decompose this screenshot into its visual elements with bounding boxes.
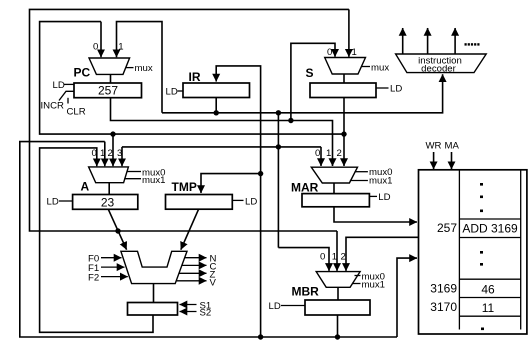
multiplexer S mux — [325, 58, 366, 75]
wire: IR-out bus line y=112.8 to decoder riser — [162, 74, 443, 113]
svg-text:mux1: mux1 — [369, 176, 392, 187]
svg-text:257: 257 — [437, 221, 457, 235]
svg-text:LD: LD — [378, 192, 390, 203]
label tick mux (PC) — [126, 67, 134, 69]
svg-text:2: 2 — [108, 148, 113, 159]
memory row line between 46 and 11 — [459, 297, 520, 299]
wire: ALU to shifter — [153, 284, 155, 303]
pin LD (S) — [376, 87, 389, 89]
wire: TMP-out diagonal to ALU right input — [181, 209, 199, 250]
svg-text:ADD 3169: ADD 3169 — [462, 222, 518, 236]
svg-text:2: 2 — [337, 148, 342, 159]
svg-text:1: 1 — [118, 42, 123, 53]
memory row line top of 46 row — [459, 278, 520, 280]
svg-text:1: 1 — [332, 252, 337, 263]
wire: MAR mux to MAR register — [333, 183, 335, 194]
svg-text:LD: LD — [166, 87, 178, 98]
wire: down to A mux input 1 — [104, 142, 106, 167]
label tick mux0 (MBR mux) — [355, 275, 361, 277]
svg-text:MBR: MBR — [292, 285, 320, 299]
svg-text:MA: MA — [445, 141, 460, 152]
label tick mux0 (A mux) — [127, 171, 142, 173]
instruction decoder U1 — [396, 54, 487, 73]
svg-text:decoder: decoder — [421, 64, 456, 75]
wire: MAR-out to memory address input — [334, 207, 417, 222]
node: junction PC-out line at S riser — [288, 118, 293, 123]
node: junction S-out line to A mux 2 — [110, 131, 115, 136]
svg-text:1: 1 — [352, 47, 357, 58]
pin S2 (shifter) — [180, 311, 197, 313]
svg-text:F2: F2 — [88, 273, 99, 284]
memory address column divider — [458, 170, 460, 330]
wire: bus riser to memory data input — [397, 258, 417, 337]
wire: outer loop down to S mux input 1 — [348, 9, 350, 56]
svg-text:0: 0 — [92, 148, 97, 159]
multiplexer MAR mux — [311, 167, 357, 183]
wire: decoder output 3 — [454, 28, 456, 54]
wire: down to PC mux input 0 — [100, 22, 102, 58]
node: junction IR-out on y=112.8 — [214, 110, 219, 115]
node: junction bus riser TMP tap — [258, 171, 263, 176]
svg-text:TMP: TMP — [172, 180, 197, 194]
wire: PC mux to PC register — [110, 74, 112, 83]
memory row line bottom of 11 row — [459, 315, 520, 317]
node: junction IR branch top — [276, 110, 281, 115]
wire: S-out vertical down to MAR mux input 2 — [343, 98, 345, 167]
svg-text:PC: PC — [74, 66, 91, 80]
op-amp ALU — [121, 251, 187, 283]
svg-text:mux: mux — [371, 63, 389, 74]
wire: bottom bus y=337 — [20, 142, 397, 337]
svg-text:WR: WR — [426, 141, 442, 152]
pin C flag (ALU) — [182, 264, 207, 266]
wire: branch down to A mux input 2 — [112, 134, 114, 166]
svg-text:11: 11 — [482, 301, 495, 315]
svg-text:INCR: INCR — [41, 101, 65, 112]
svg-text:0: 0 — [320, 252, 325, 263]
node: junction MBR-out on bus — [335, 334, 340, 339]
memory row line bottom of ADD row — [459, 237, 520, 239]
pin LD (MAR) — [369, 195, 377, 197]
node: junction operand line at IR riser — [276, 144, 281, 149]
wire: memory out to MBR mux input 2 — [346, 237, 419, 271]
node: junction S-out line at MAR riser — [341, 131, 346, 136]
memory M1 — [419, 170, 527, 334]
svg-text:LD: LD — [269, 301, 281, 312]
wire: S mux to S register — [343, 74, 345, 83]
svg-text:0: 0 — [93, 42, 98, 53]
multiplexer MBR mux — [316, 272, 360, 288]
wire: MBR-out down to bottom bus — [337, 315, 339, 337]
svg-text:46: 46 — [481, 283, 495, 297]
svg-text:IR: IR — [189, 70, 201, 84]
memory ellipsis dots top — [480, 183, 483, 186]
svg-text:LD: LD — [53, 80, 65, 91]
wire: IR branch along y=247.6 to MBR mux input 0 — [278, 248, 329, 271]
svg-text:23: 23 — [101, 196, 115, 210]
wire: IR branch down to operand line y=146.9 — [277, 113, 279, 248]
wire: IR-out vertical — [215, 98, 217, 113]
node: junction A-out on y=231 line — [115, 228, 120, 233]
label tick mux1 (MBR mux) — [352, 283, 361, 285]
svg-text:LD: LD — [245, 197, 257, 208]
wire: decoder output 2 — [427, 28, 429, 54]
svg-text:0: 0 — [327, 47, 332, 58]
svg-text:3: 3 — [117, 148, 122, 159]
svg-text:1: 1 — [326, 148, 331, 159]
label tick mux1 (A mux) — [124, 178, 141, 180]
svg-text:LD: LD — [390, 84, 402, 95]
svg-text:0: 0 — [315, 148, 320, 159]
svg-text:mux: mux — [135, 63, 153, 74]
svg-text:mux1: mux1 — [362, 280, 385, 291]
wire: bus riser up to IR input — [216, 66, 260, 337]
wire: decoder output 1 — [402, 28, 404, 54]
svg-text:3169: 3169 — [430, 282, 457, 296]
svg-text:3170: 3170 — [430, 300, 457, 314]
svg-text:mux1: mux1 — [142, 175, 165, 186]
svg-text:257: 257 — [98, 84, 118, 98]
memory row line top of ADD row — [459, 218, 520, 220]
wire: A mux to A register — [108, 183, 110, 195]
wire: branch down to MBR mux input 1 — [336, 231, 338, 271]
node: junction bus riser on bus — [258, 334, 263, 339]
wire: MBR mux to MBR register — [337, 287, 339, 300]
wire: down to A mux input 3 — [121, 147, 123, 166]
pin LD (TMP) — [232, 199, 243, 201]
svg-text:LD: LD — [47, 197, 59, 208]
pin N flag (ALU) — [185, 257, 207, 259]
multiplexer PC mux — [89, 58, 130, 74]
wire: down to MAR mux input 0 — [320, 147, 322, 166]
memory ellipsis dots middle — [480, 251, 483, 254]
pin S1 (shifter) — [180, 304, 197, 306]
label tick mux (S) — [362, 66, 371, 68]
memory value column right edge — [520, 170, 522, 330]
label: more outputs dots — [465, 43, 467, 45]
memory ellipsis dot bottom — [481, 328, 484, 331]
svg-text:S: S — [306, 66, 314, 80]
svg-text:A: A — [81, 180, 90, 194]
label tick mux0 (MAR mux) — [355, 171, 368, 173]
label tick mux1 (MAR mux) — [350, 180, 368, 182]
svg-text:V: V — [210, 278, 217, 289]
svg-text:MAR: MAR — [291, 181, 319, 195]
svg-text:2: 2 — [341, 252, 346, 263]
wire: A-out bus line y=231 from outer loop — [30, 9, 349, 231]
multiplexer A mux — [89, 167, 129, 183]
wire: shifter-out feedback to A mux input 0 — [40, 148, 153, 332]
svg-text:1: 1 — [100, 148, 105, 159]
wire: bus tap to TMP input — [201, 174, 261, 193]
wire: S-out bus line y=134.1 — [40, 22, 344, 135]
wire: operand line y=146.9 — [122, 146, 321, 148]
wire: PC-out down and along y=120.5 to MAR mux input 1 — [111, 98, 333, 167]
wire: A-out diagonal to ALU left input — [108, 209, 126, 249]
pin V flag (ALU) — [176, 280, 206, 282]
shifter — [128, 303, 178, 316]
pin Z flag (ALU) — [179, 272, 207, 274]
wire: PC-out branch up to S mux input 0 — [291, 43, 335, 120]
svg-text:S2: S2 — [200, 308, 212, 319]
wire: IR-out up and left to PC mux input 1 — [117, 22, 163, 113]
svg-text:CLR: CLR — [67, 107, 86, 118]
